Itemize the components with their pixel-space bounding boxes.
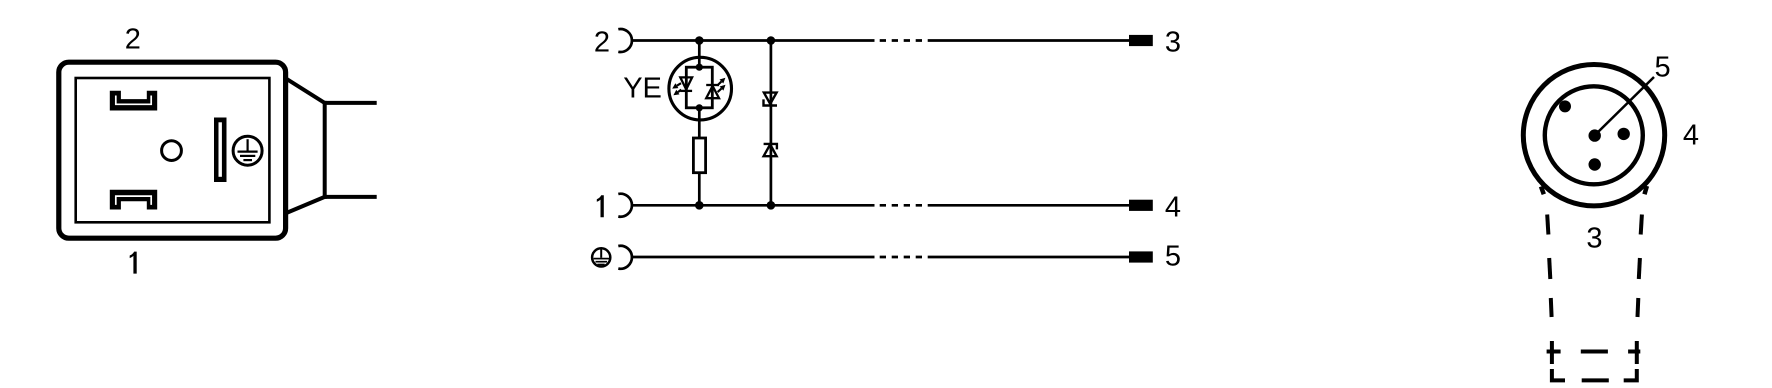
svg-text:3: 3 — [1586, 223, 1602, 255]
svg-text:2: 2 — [125, 24, 141, 56]
svg-text:3: 3 — [1165, 27, 1181, 59]
svg-text:4: 4 — [1165, 191, 1181, 223]
svg-text:5: 5 — [1655, 52, 1671, 84]
svg-text:4: 4 — [1683, 120, 1699, 152]
svg-text:YE: YE — [623, 72, 662, 104]
svg-text:2: 2 — [594, 27, 610, 59]
svg-text:5: 5 — [1165, 241, 1181, 273]
